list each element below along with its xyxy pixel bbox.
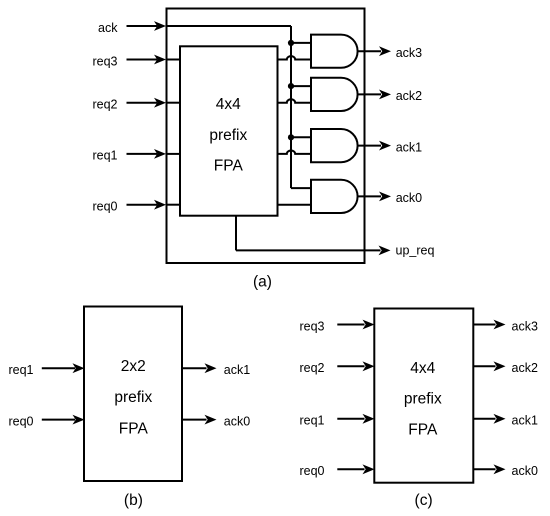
svg-text:req0: req0 (8, 414, 33, 428)
output ack1 (a) (358, 140, 423, 154)
wire: ack vertical bus down to gate feeds (291, 26, 311, 188)
svg-text:ack: ack (98, 21, 118, 35)
block U3: 4x4 prefix FPA (c) (374, 309, 473, 483)
wire: ack bus to AND gate 3 upper input (291, 136, 311, 138)
output ack0 (c) (473, 464, 538, 478)
output ack1 (b) (182, 363, 250, 377)
svg-text:ack3: ack3 (396, 46, 422, 60)
junction dot on ack bus (gate 2) (288, 83, 294, 89)
input req0 (a) (92, 200, 180, 214)
svg-text:req3: req3 (299, 319, 324, 333)
svg-text:ack0: ack0 (224, 414, 250, 428)
output ack3 (a) (358, 46, 423, 60)
AND gate G1 (311, 35, 358, 68)
input req3 (a) (92, 54, 180, 68)
input ack (a) (98, 21, 291, 35)
svg-text:4x4: 4x4 (410, 360, 435, 377)
AND gate G3 (311, 129, 358, 162)
svg-text:(a): (a) (253, 274, 272, 291)
svg-text:req2: req2 (299, 361, 324, 375)
svg-text:prefix: prefix (209, 127, 247, 144)
input req2 (a) (92, 98, 180, 112)
input req1 (c) (299, 414, 374, 428)
AND gate G2 (311, 78, 358, 111)
caption (b) (124, 492, 143, 509)
wire: FPA output to AND gate 3 lower input (278, 150, 312, 153)
svg-text:FPA: FPA (214, 158, 244, 175)
svg-text:2x2: 2x2 (121, 358, 146, 375)
output ack1 (c) (473, 414, 538, 428)
svg-text:req0: req0 (92, 200, 117, 214)
svg-text:ack1: ack1 (396, 140, 422, 154)
output up_req (a) (236, 216, 434, 258)
svg-text:(c): (c) (415, 492, 433, 509)
input req0 (b) (8, 414, 84, 428)
output ack3 (c) (473, 319, 538, 333)
block U1: 4x4 prefix FPA (a) (180, 46, 278, 215)
input req3 (c) (299, 319, 374, 333)
input req0 (c) (299, 464, 374, 478)
AND gate G4 (311, 180, 358, 213)
svg-text:prefix: prefix (404, 391, 442, 408)
junction dot on ack bus (gate 3) (288, 134, 294, 140)
svg-text:ack0: ack0 (396, 191, 422, 205)
caption (a) (253, 274, 272, 291)
wire: FPA output to AND gate 2 lower input (278, 99, 312, 102)
svg-text:ack3: ack3 (512, 319, 538, 333)
svg-text:ack2: ack2 (396, 89, 422, 103)
svg-text:FPA: FPA (119, 420, 149, 437)
caption (c) (415, 492, 433, 509)
svg-text:ack1: ack1 (512, 414, 538, 428)
svg-text:req1: req1 (92, 149, 117, 163)
wire: ack bus to AND gate 1 upper input (291, 42, 311, 44)
junction dot on ack bus (gate 1) (288, 40, 294, 46)
svg-text:ack2: ack2 (512, 361, 538, 375)
svg-text:ack0: ack0 (512, 464, 538, 478)
svg-text:FPA: FPA (408, 422, 438, 439)
svg-text:up_req: up_req (396, 244, 435, 258)
wire: FPA output to AND gate 4 lower input (278, 204, 312, 206)
svg-text:req3: req3 (92, 54, 117, 68)
wire: ack bus to AND gate 2 upper input (291, 85, 311, 87)
svg-text:req1: req1 (8, 363, 33, 377)
svg-text:prefix: prefix (114, 389, 152, 406)
output ack0 (a) (358, 191, 423, 205)
input req1 (a) (92, 149, 180, 163)
wire: FPA output to AND gate 1 lower input (278, 56, 312, 59)
svg-text:req2: req2 (92, 98, 117, 112)
input req2 (c) (299, 361, 374, 375)
outer box of 4x4 arbiter (a) (167, 9, 365, 264)
output ack0 (b) (182, 414, 250, 428)
svg-text:(b): (b) (124, 492, 143, 509)
svg-text:ack1: ack1 (224, 363, 250, 377)
svg-text:req0: req0 (299, 464, 324, 478)
input req1 (b) (8, 363, 84, 377)
block U2: 2x2 prefix FPA (b) (84, 307, 182, 482)
svg-text:4x4: 4x4 (216, 96, 241, 113)
output ack2 (c) (473, 361, 538, 375)
output ack2 (a) (358, 89, 423, 103)
svg-text:req1: req1 (299, 414, 324, 428)
